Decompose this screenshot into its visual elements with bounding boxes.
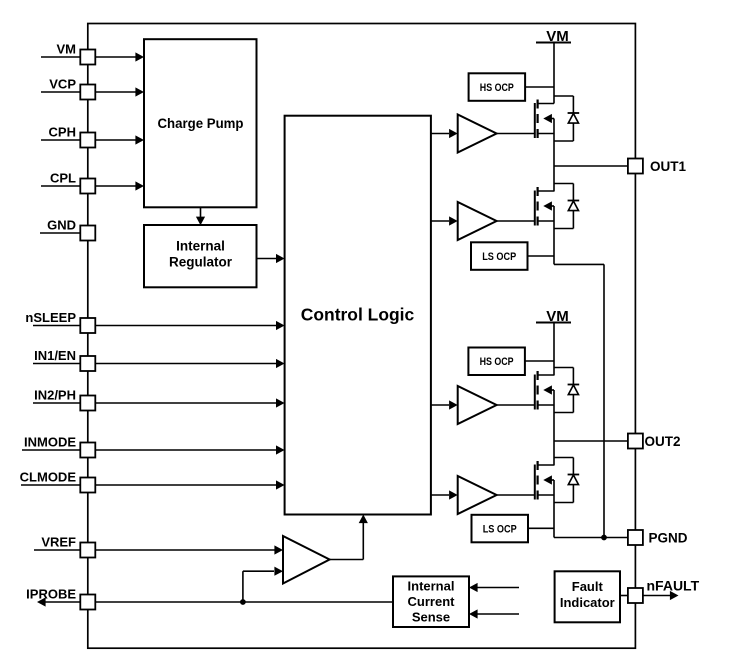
wire sense input 2 bbox=[469, 609, 519, 618]
svg-text:VREF: VREF bbox=[41, 534, 76, 549]
pin INMODE bbox=[22, 434, 285, 457]
svg-text:Regulator: Regulator bbox=[169, 255, 233, 270]
wire OUT1 node bbox=[554, 134, 628, 192]
buffer B2 bbox=[431, 202, 497, 240]
svg-text:HS OCP: HS OCP bbox=[480, 356, 514, 368]
transistor Q1 bbox=[497, 100, 554, 139]
charge pump block bbox=[144, 39, 257, 207]
svg-text:OUT1: OUT1 bbox=[650, 159, 686, 174]
svg-text:CLMODE: CLMODE bbox=[20, 469, 77, 484]
svg-text:LS OCP: LS OCP bbox=[482, 251, 516, 263]
chip outline bbox=[88, 24, 636, 649]
wire IPROBE tap to comparator input bbox=[243, 567, 283, 602]
svg-text:LS OCP: LS OCP bbox=[483, 523, 517, 535]
svg-text:IPROBE: IPROBE bbox=[26, 586, 76, 601]
VM rail bridge 1 bbox=[536, 28, 571, 104]
wire regulator to control logic bbox=[257, 254, 285, 263]
svg-text:Indicator: Indicator bbox=[560, 595, 615, 610]
pin IN2/PH bbox=[33, 387, 285, 410]
block LS OCP 2 bbox=[472, 515, 555, 543]
pin IN1/EN bbox=[33, 348, 285, 371]
svg-text:Internal: Internal bbox=[408, 579, 455, 594]
transistor Q2 bbox=[497, 187, 554, 226]
svg-text:PGND: PGND bbox=[649, 530, 688, 545]
svg-text:Control Logic: Control Logic bbox=[301, 305, 415, 325]
wire IPROBE to current sense bbox=[96, 601, 393, 603]
svg-text:Internal: Internal bbox=[176, 239, 225, 254]
pin VCP bbox=[41, 76, 144, 99]
body diode Q3 bbox=[554, 368, 579, 413]
svg-text:Fault: Fault bbox=[572, 579, 604, 594]
svg-text:INMODE: INMODE bbox=[24, 434, 76, 449]
pin PGND bbox=[628, 530, 688, 545]
pin GND bbox=[40, 217, 95, 240]
pin nFAULT bbox=[628, 578, 700, 604]
wire bridge2 low-side source to PGND bbox=[554, 495, 628, 538]
block HS OCP 1 bbox=[469, 73, 554, 101]
junction IPROBE tap bbox=[240, 599, 246, 605]
junction PGND bbox=[601, 535, 607, 541]
transistor Q3 bbox=[497, 371, 554, 410]
svg-text:Sense: Sense bbox=[412, 610, 450, 625]
pin IPROBE bbox=[26, 586, 96, 609]
svg-text:IN2/PH: IN2/PH bbox=[34, 387, 76, 402]
pin OUT1 bbox=[628, 159, 687, 174]
svg-text:CPH: CPH bbox=[49, 124, 76, 139]
svg-text:nSLEEP: nSLEEP bbox=[25, 310, 76, 325]
transistor Q4 bbox=[497, 461, 554, 500]
buffer B3 bbox=[431, 386, 497, 424]
pin CLMODE bbox=[20, 469, 285, 492]
pin CPL bbox=[41, 170, 144, 193]
body diode Q4 bbox=[554, 458, 579, 503]
pin CPH bbox=[41, 124, 144, 147]
buffer B1 bbox=[431, 115, 497, 153]
body diode Q2 bbox=[554, 184, 579, 229]
body diode Q1 bbox=[554, 96, 579, 141]
buffer B4 bbox=[431, 476, 497, 514]
wire bridge1 low-side source to PGND bbox=[554, 221, 604, 538]
svg-text:VCP: VCP bbox=[49, 76, 76, 91]
wire amplifier to control logic bbox=[330, 515, 368, 560]
pin nSLEEP bbox=[25, 310, 284, 333]
pin VM bbox=[41, 41, 144, 64]
pin OUT2 bbox=[628, 434, 681, 449]
svg-text:CPL: CPL bbox=[50, 170, 76, 185]
svg-text:OUT2: OUT2 bbox=[645, 434, 681, 449]
wire OUT2 node bbox=[554, 405, 628, 466]
svg-text:HS OCP: HS OCP bbox=[480, 82, 514, 94]
wire charge pump to regulator bbox=[196, 207, 205, 225]
svg-text:IN1/EN: IN1/EN bbox=[34, 348, 76, 363]
svg-text:Charge Pump: Charge Pump bbox=[158, 116, 244, 131]
internal current sense block bbox=[393, 576, 469, 627]
svg-text:VM: VM bbox=[57, 41, 77, 56]
control logic block bbox=[285, 116, 431, 515]
current sense amplifier bbox=[283, 536, 330, 584]
pin VREF bbox=[34, 534, 283, 557]
block LS OCP 1 bbox=[471, 242, 554, 269]
wire sense input 1 bbox=[469, 583, 519, 592]
svg-text:GND: GND bbox=[47, 217, 76, 232]
svg-text:Current: Current bbox=[408, 594, 456, 609]
svg-text:VM: VM bbox=[546, 28, 569, 45]
fault indicator block bbox=[555, 571, 627, 622]
block HS OCP 2 bbox=[468, 348, 554, 376]
svg-text:nFAULT: nFAULT bbox=[647, 578, 700, 594]
VM rail bridge 2 bbox=[536, 308, 571, 376]
svg-text:VM: VM bbox=[546, 308, 569, 325]
internal regulator block bbox=[144, 225, 257, 287]
